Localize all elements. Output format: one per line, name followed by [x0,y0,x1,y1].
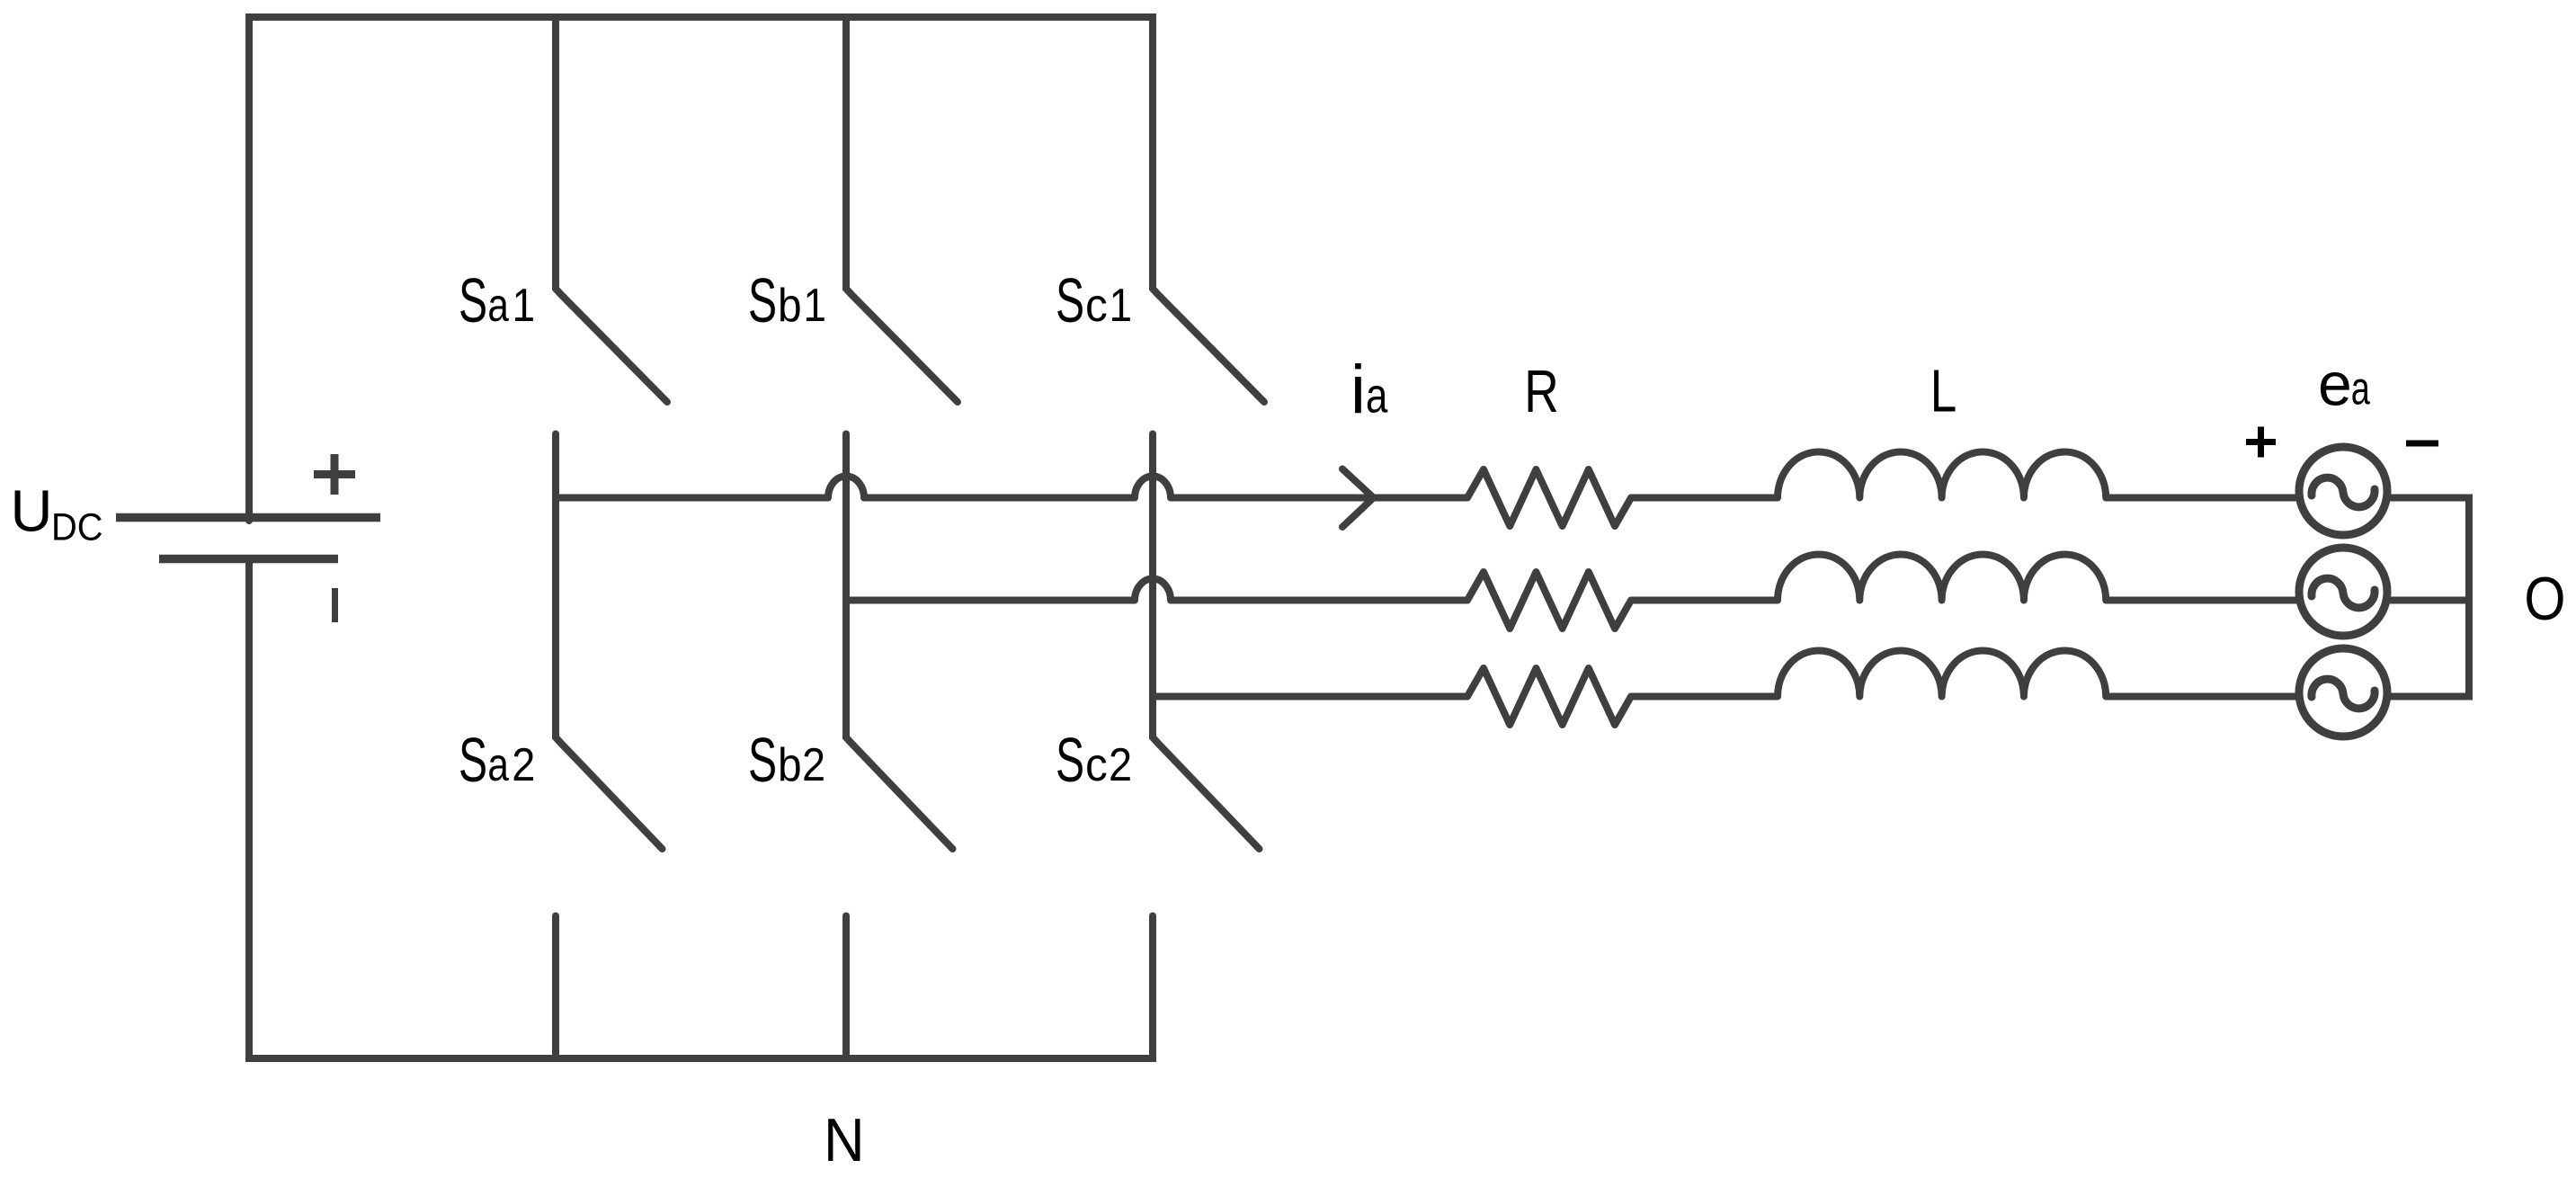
svg-text:O: O [2524,565,2565,633]
svg-text:b: b [778,280,802,332]
svg-text:e: e [2318,350,2352,418]
svg-text:DC: DC [51,506,103,549]
svg-text:S: S [459,265,487,335]
svg-text:a: a [487,739,509,791]
svg-text:b: b [778,739,802,791]
svg-text:S: S [1056,265,1084,335]
svg-text:S: S [1056,725,1084,795]
svg-text:S: S [748,725,777,795]
svg-text:2: 2 [1109,739,1132,791]
svg-text:N: N [824,1106,865,1174]
svg-text:L: L [1930,359,1957,425]
svg-text:2: 2 [512,739,535,791]
svg-text:1: 1 [513,280,536,332]
svg-text:1: 1 [1110,280,1133,332]
svg-text:R: R [1524,358,1559,425]
svg-text:i: i [1350,352,1366,428]
svg-text:a: a [487,280,509,332]
svg-text:a: a [1366,368,1388,424]
svg-text:c: c [1085,280,1108,332]
svg-text:1: 1 [803,280,826,332]
svg-text:c: c [1085,739,1108,791]
svg-text:S: S [748,265,777,335]
svg-text:S: S [459,725,487,795]
svg-text:2: 2 [802,739,825,791]
svg-text:a: a [2351,363,2370,415]
svg-text:U: U [11,478,53,544]
